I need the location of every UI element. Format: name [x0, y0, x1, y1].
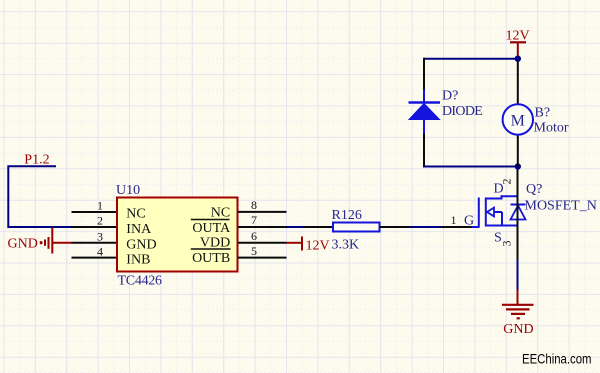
Q? drain/source vertical pin line	[517, 167, 519, 259]
svg-text:GND: GND	[8, 237, 38, 252]
svg-text:1: 1	[97, 199, 103, 213]
diode D?	[409, 90, 441, 134]
svg-text:4: 4	[97, 244, 103, 258]
svg-text:OUTB: OUTB	[192, 251, 230, 266]
B? value Motor	[534, 121, 569, 136]
R126 designator	[332, 208, 362, 223]
resistor R126	[304, 223, 410, 232]
U10 pin 7	[238, 213, 287, 227]
svg-text:B?: B?	[535, 106, 551, 121]
Q? value MOSFET_N	[525, 199, 597, 214]
svg-text:U10: U10	[116, 183, 140, 198]
U10 pin name NC (right)	[211, 206, 230, 221]
svg-text:TC4426: TC4426	[118, 274, 163, 289]
svg-text:M: M	[511, 113, 525, 130]
U10 pin name OUTA (right)	[192, 221, 231, 236]
junction top	[515, 56, 521, 62]
svg-text:P1.2: P1.2	[24, 153, 49, 168]
svg-text:OUTA: OUTA	[192, 221, 231, 236]
U10 pin name VDD (right)	[200, 236, 230, 251]
svg-text:2: 2	[97, 214, 103, 228]
B? designator	[535, 106, 551, 121]
ground GND (bottom)	[502, 290, 534, 338]
svg-text:7: 7	[251, 213, 257, 227]
U10 pin name OUTB (right)	[192, 251, 230, 266]
svg-text:2: 2	[500, 179, 514, 185]
svg-text:1: 1	[451, 213, 457, 227]
svg-text:8: 8	[251, 198, 257, 212]
U10 pin 2	[72, 214, 118, 228]
svg-text:5: 5	[251, 244, 257, 258]
U10 pin 4	[72, 244, 118, 258]
D? designator	[442, 89, 458, 104]
wire bottom of loop to drain junction	[424, 166, 518, 168]
overline OUTB	[191, 248, 231, 250]
node P1.2 label	[24, 153, 49, 168]
svg-text:NC: NC	[211, 206, 230, 221]
Q? drain label D, pin 2	[494, 179, 514, 197]
wire diode branch vertical	[423, 58, 425, 168]
ground GND (left, at U10 pin 3)	[8, 228, 72, 254]
U10 pin 3	[72, 230, 118, 244]
svg-text:EEChina.com: EEChina.com	[522, 351, 592, 367]
svg-text:Q?: Q?	[526, 182, 542, 197]
U10 pin 6	[238, 229, 287, 243]
U10 pin 1	[72, 199, 118, 213]
wire R126 to Q? gate	[410, 226, 442, 228]
junction drain	[515, 163, 521, 169]
motor B?	[503, 104, 533, 134]
D? value DIODE	[442, 104, 483, 119]
U10 pin name NC (left)	[126, 207, 145, 222]
transistor Q? gate pin stub, pin 1 G	[442, 213, 475, 229]
svg-text:INA: INA	[126, 222, 152, 237]
U10 designator	[116, 183, 140, 198]
EEChina.com watermark	[522, 351, 592, 367]
svg-text:12V: 12V	[306, 239, 330, 254]
svg-text:GND: GND	[503, 322, 533, 337]
svg-text:DIODE: DIODE	[442, 104, 483, 119]
overline OUTA	[191, 219, 230, 221]
wire P1.2 to U10 pin 2	[8, 166, 71, 227]
svg-text:D?: D?	[442, 89, 458, 104]
svg-text:Motor: Motor	[534, 121, 569, 136]
Q? source label S, pin 3	[494, 231, 514, 247]
svg-text:3: 3	[500, 241, 514, 247]
R126 value 3.3K	[332, 238, 360, 253]
power 12V (top)	[506, 29, 530, 56]
U10 pin name INA (left)	[126, 222, 152, 237]
svg-text:3.3K: 3.3K	[332, 238, 360, 253]
U10 pin 5	[238, 244, 287, 258]
wire U10 pin 7 to R126	[287, 226, 305, 228]
transistor Q? MOSFET_N symbol	[472, 196, 526, 228]
svg-text:INB: INB	[126, 253, 150, 268]
U10 pin 8	[238, 198, 287, 212]
svg-text:MOSFET_N: MOSFET_N	[525, 199, 597, 214]
svg-text:NC: NC	[126, 207, 145, 222]
U10 value TC4426	[118, 274, 163, 289]
wire motor to drain junction	[517, 134, 519, 167]
svg-text:R126: R126	[332, 208, 362, 223]
IC U10 TC4426 body	[117, 198, 238, 272]
wire Q? source to GND	[517, 259, 519, 290]
svg-text:3: 3	[97, 230, 103, 244]
svg-text:6: 6	[251, 229, 257, 243]
svg-text:GND: GND	[126, 238, 156, 253]
U10 pin name GND (left)	[126, 238, 156, 253]
power 12V (at U10 pin 6)	[287, 237, 330, 254]
U10 pin name INB (left)	[126, 253, 150, 268]
wire 12V rail to motor/diode loop	[424, 56, 518, 105]
Q? designator	[526, 182, 542, 197]
